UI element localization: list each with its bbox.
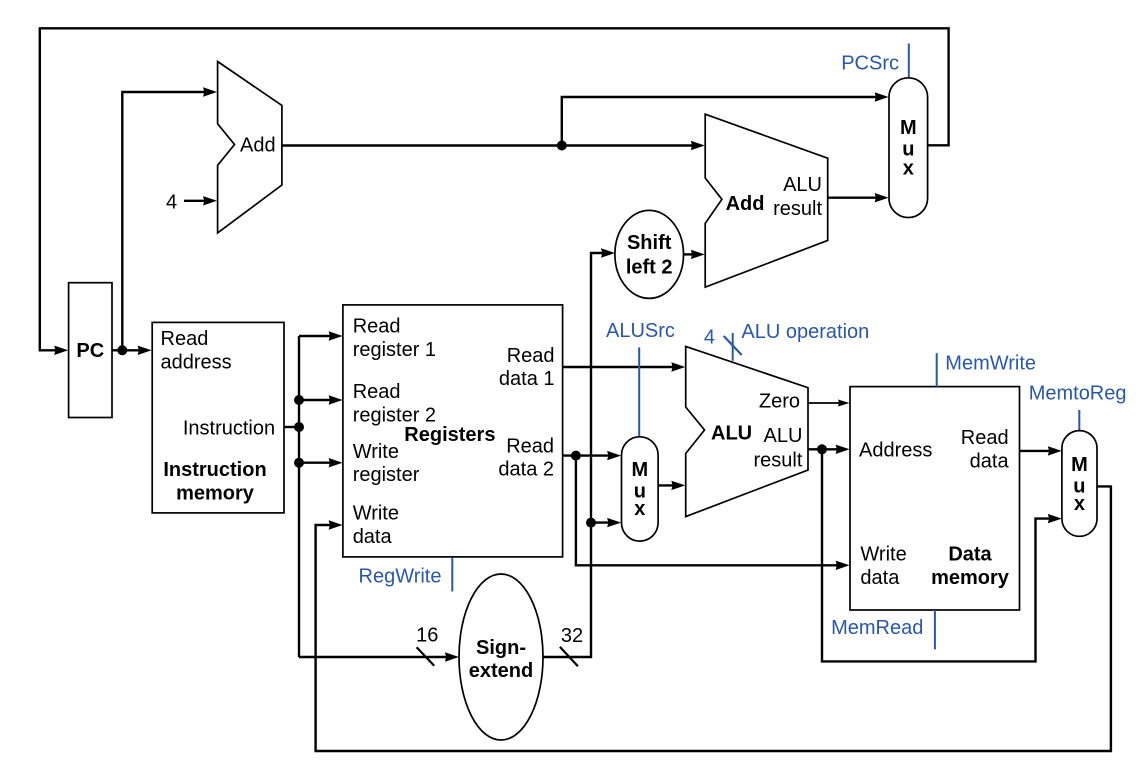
node: instruction bus junction at instruction output <box>294 422 304 432</box>
svg-text:register 1: register 1 <box>353 339 436 361</box>
wire: PC+4 branch up to PCSrc mux input 0 <box>562 92 889 145</box>
wire: sign-extend output riser to shift left 2 <box>543 248 615 657</box>
instruction memory <box>152 322 284 513</box>
svg-text:M: M <box>631 459 648 481</box>
label: MemWrite control <box>937 352 1036 386</box>
svg-text:Read: Read <box>161 328 209 350</box>
label: ALU operation control with 4-bit width <box>704 321 869 361</box>
wire: PC value up to top adder input <box>122 87 217 350</box>
svg-text:x: x <box>903 158 914 180</box>
svg-text:left 2: left 2 <box>626 256 673 278</box>
svg-text:4: 4 <box>704 327 715 349</box>
wire: instruction to write register <box>299 458 343 467</box>
svg-text:Write: Write <box>353 441 399 463</box>
svg-text:data 2: data 2 <box>498 459 554 481</box>
svg-text:4: 4 <box>166 192 177 214</box>
svg-text:ALUSrc: ALUSrc <box>606 320 675 342</box>
label: MemtoReg control <box>1029 382 1127 430</box>
svg-text:Shift: Shift <box>627 232 672 254</box>
label: 32-bit width <box>560 625 583 666</box>
svg-text:RegWrite: RegWrite <box>359 566 442 588</box>
svg-text:MemRead: MemRead <box>831 617 923 639</box>
wire: branch target to PCSrc mux input 1 <box>828 193 889 202</box>
svg-text:extend: extend <box>469 660 533 682</box>
svg-text:data: data <box>353 526 393 548</box>
svg-text:Read: Read <box>353 381 401 403</box>
svg-text:Registers: Registers <box>404 424 495 446</box>
wire: constant 4 to top adder <box>184 196 217 205</box>
svg-text:MemtoReg: MemtoReg <box>1029 382 1127 404</box>
adder: PC+4 Add unit <box>218 62 282 233</box>
svg-text:M: M <box>1071 454 1088 476</box>
wire: PC+4 result to branch adder upper input <box>282 141 705 150</box>
svg-text:ALU operation: ALU operation <box>741 321 869 343</box>
label: PCSrc control <box>841 44 909 78</box>
node: sign-extend output junction <box>586 518 596 528</box>
registers file <box>343 305 563 557</box>
svg-text:Data: Data <box>948 544 992 566</box>
mux: ALUSrc multiplexor <box>622 437 659 541</box>
svg-text:ALU: ALU <box>763 425 802 447</box>
node: PC output junction <box>117 345 127 355</box>
label: 16-bit width <box>416 624 438 665</box>
mux: PCSrc multiplexor <box>889 78 928 218</box>
node: instruction bus junction at write register <box>294 458 304 468</box>
svg-text:memory: memory <box>176 483 255 505</box>
wire: PC output to instruction memory read address <box>112 346 152 355</box>
label: RegWrite control <box>359 558 453 592</box>
svg-text:address: address <box>161 352 232 374</box>
svg-text:result: result <box>773 198 822 220</box>
svg-text:Address: Address <box>859 439 932 461</box>
node: instruction bus junction at read register 2 <box>294 395 304 405</box>
svg-text:Add: Add <box>726 193 765 215</box>
svg-text:Write: Write <box>353 502 399 524</box>
svg-text:result: result <box>753 449 802 471</box>
mux: MemtoReg multiplexor <box>1062 431 1097 537</box>
wire: shift left 2 output to branch adder <box>684 250 705 259</box>
wire: MemtoReg mux output loop back to registers write data <box>316 486 1111 751</box>
svg-text:Read: Read <box>507 345 555 367</box>
svg-text:data: data <box>860 567 900 589</box>
svg-text:ALU: ALU <box>783 174 822 196</box>
alu: main ALU <box>686 346 808 516</box>
adder: branch target Add unit <box>705 114 828 287</box>
wire: instruction low 16 bits to sign-extend <box>299 652 459 661</box>
svg-text:Read: Read <box>353 316 401 338</box>
svg-text:Instruction: Instruction <box>163 459 266 481</box>
svg-text:x: x <box>1074 493 1085 515</box>
svg-text:Read: Read <box>506 436 554 458</box>
svg-text:MemWrite: MemWrite <box>945 352 1036 374</box>
wire: ALUSrc mux output to ALU lower input <box>658 481 685 490</box>
wire: ALU result down to MemtoReg mux input 0 <box>822 449 1062 661</box>
svg-text:Add: Add <box>240 134 276 156</box>
svg-text:data 1: data 1 <box>499 368 555 390</box>
svg-text:Instruction: Instruction <box>183 417 275 439</box>
wire: ALU result to data memory address <box>808 445 850 454</box>
wire: data memory read data to MemtoReg mux input 1 <box>1020 446 1062 455</box>
wire: PCSrc mux output loop to PC input <box>40 28 949 355</box>
svg-text:Sign-: Sign- <box>476 637 526 659</box>
svg-text:PCSrc: PCSrc <box>841 53 899 75</box>
svg-text:PC: PC <box>76 340 104 362</box>
svg-text:Zero: Zero <box>759 391 800 413</box>
node: read data 2 junction <box>571 451 581 461</box>
wire: instruction output stub <box>284 426 299 428</box>
sign-extend unit <box>459 574 543 740</box>
wire: read data 1 to ALU upper input <box>563 362 686 371</box>
svg-text:x: x <box>634 498 645 520</box>
wire: read data 2 down to data memory write data <box>576 456 850 570</box>
label: MemRead control <box>831 610 935 649</box>
PC register <box>69 283 112 418</box>
svg-text:16: 16 <box>416 624 438 646</box>
svg-text:ALU: ALU <box>711 422 752 444</box>
wire: instruction bus vertical <box>298 336 300 657</box>
wire: instruction to read register 1 <box>299 331 343 340</box>
shift left 2 unit <box>615 210 684 298</box>
wire: sign-extend value to ALUSrc mux input 1 <box>591 518 621 527</box>
svg-text:Write: Write <box>860 544 906 566</box>
data memory <box>850 387 1020 610</box>
node: PC+4 junction <box>557 141 567 151</box>
wire: instruction to read register 2 <box>299 395 343 404</box>
svg-text:Read: Read <box>961 427 1009 449</box>
label: ALUSrc control <box>606 320 675 437</box>
svg-text:M: M <box>900 117 917 139</box>
svg-text:32: 32 <box>561 625 583 647</box>
node: ALU result junction <box>817 444 827 454</box>
wire: Zero output <box>808 400 850 407</box>
svg-text:data: data <box>970 451 1010 473</box>
svg-text:memory: memory <box>931 567 1010 589</box>
svg-text:register: register <box>353 464 420 486</box>
wire: read data 2 to ALUSrc mux input 0 <box>563 451 622 460</box>
